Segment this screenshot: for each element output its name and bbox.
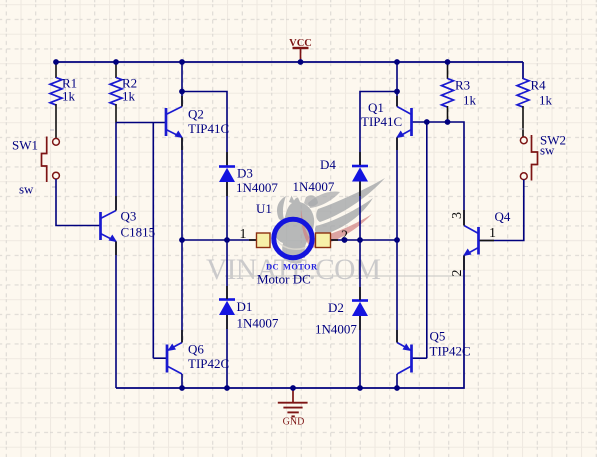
watermark logo: wing 2: [315, 198, 373, 236]
wire node to D3 top: [182, 92, 227, 167]
junction Q1 collector node: [394, 89, 400, 95]
black component pin stubs: [116, 96, 494, 343]
svg-text:1: 1: [240, 227, 247, 242]
svg-text:D4: D4: [320, 157, 336, 172]
svg-text:sw: sw: [19, 182, 34, 197]
junction Q1 feed/bus: [394, 59, 400, 65]
svg-text:GND: GND: [283, 417, 305, 428]
wire R4 bottom lead to SW2: [522, 106, 524, 137]
wire ground bus: [116, 256, 464, 389]
svg-text:Q2: Q2: [188, 107, 204, 122]
diode D2 (1N4007): [352, 301, 368, 317]
transistor Q6 (TIP42C PNP): [167, 343, 182, 375]
pin stub D2 top: [359, 287, 361, 300]
transistor Q3 (C1815 NPN): [101, 211, 118, 243]
junction ground bus / Q6: [179, 385, 185, 391]
svg-text:MOTOR: MOTOR: [283, 262, 318, 272]
svg-text:Q1: Q1: [368, 100, 384, 115]
switch SW2: [520, 135, 537, 181]
svg-text:DC: DC: [266, 262, 279, 272]
pin stub Q2 emitter: [181, 138, 183, 151]
pin stub Q2 collector: [181, 96, 183, 107]
pin stub D2 bottom: [359, 316, 361, 330]
svg-text:Q6: Q6: [188, 342, 204, 357]
wire node to D4 top: [360, 92, 397, 166]
wire D2 top: [359, 240, 361, 300]
transistor Q5 (TIP42C PNP, mirrored): [397, 343, 412, 375]
wire R2 node to Q2 base: [116, 122, 166, 124]
svg-text:TIP41C: TIP41C: [188, 121, 229, 136]
pin stub D4 bottom: [359, 182, 361, 197]
pin stub Q4 base: [480, 240, 495, 242]
resistor R2: [110, 78, 122, 105]
wire Q1 collector feed: [396, 62, 398, 107]
watermark logo: horse neck wisp: [304, 195, 318, 206]
junction motor left / Q2 emitter: [179, 237, 185, 243]
svg-text:3: 3: [450, 212, 465, 219]
svg-text:R3: R3: [455, 78, 470, 93]
wire Q2 emitter / motor left / Q6 emitter column: [181, 138, 183, 343]
wire R2 bottom lead: [115, 104, 117, 123]
pin stub Q1 collector: [396, 96, 398, 107]
wire Q1 emitter / motor right / Q5 emitter column: [396, 138, 398, 343]
watermark logo: horse head and neck: [275, 196, 314, 259]
wire D2 bottom: [359, 316, 361, 389]
motor U1 right terminal: [316, 233, 331, 248]
svg-text:Q3: Q3: [121, 209, 137, 224]
junction Q2 feed/bus: [179, 59, 185, 65]
pin stub Q4 emitter: [463, 256, 465, 271]
junction R3/bus: [445, 59, 451, 65]
junction ground bus / Q5: [394, 385, 400, 391]
wire R2 top lead: [115, 62, 117, 78]
wire Q6 collector to ground bus: [181, 374, 183, 388]
svg-text:1: 1: [489, 226, 496, 241]
wire R3 bottom lead: [447, 106, 449, 122]
motor U1 pin 2 lead: [330, 239, 338, 241]
svg-text:D2: D2: [328, 300, 344, 315]
svg-text:Motor DC: Motor DC: [257, 272, 311, 287]
wire base column to Q6 base: [152, 123, 154, 359]
svg-text:1N4007: 1N4007: [315, 322, 357, 337]
junction ground bus / D2: [357, 385, 363, 391]
svg-text:2: 2: [450, 270, 465, 277]
pin stub D3 bottom: [226, 182, 228, 196]
motor U1 left terminal: [257, 233, 271, 248]
wire motor left: [182, 239, 257, 241]
wire R1 bottom lead to SW1: [55, 104, 57, 138]
switch SW1: [42, 137, 60, 183]
pin stub Q5 emitter: [396, 330, 398, 343]
svg-text:sw: sw: [540, 143, 555, 158]
junction ground bus / GND: [290, 385, 296, 391]
resistor R4: [517, 79, 529, 108]
wire Q3 emitter to ground bus: [115, 242, 117, 389]
diode D4 (1N4007): [352, 166, 368, 182]
wire R4 top lead: [522, 62, 524, 79]
svg-text:Q5: Q5: [430, 329, 446, 344]
junction Q5 base column: [424, 119, 430, 125]
wire Q1 base to Q4 collector: [412, 122, 464, 226]
pin stub D1 bottom: [226, 315, 228, 329]
wire motor right: [330, 239, 397, 241]
diode D3 (1N4007): [219, 167, 235, 183]
transistor Q2 (TIP41C NPN): [166, 107, 183, 139]
pin tick marks SW2: [520, 129, 529, 187]
motor U1 pin 1 lead: [249, 239, 257, 241]
svg-text:SW1: SW1: [12, 138, 38, 153]
svg-text:Q4: Q4: [495, 209, 511, 224]
svg-text:VCC: VCC: [289, 38, 312, 49]
wire SW1 to Q3 base: [56, 179, 100, 226]
svg-text:1N4007: 1N4007: [236, 180, 278, 195]
svg-text:1k: 1k: [122, 89, 136, 104]
svg-text:1N4007: 1N4007: [293, 179, 335, 194]
pin stub D3 top: [226, 152, 228, 165]
junction R2/bus: [113, 59, 119, 65]
watermark logo: red wing: [301, 209, 372, 248]
wire Q6 base pin: [153, 357, 166, 359]
resistor R1: [50, 78, 62, 105]
junction ground bus / D1: [224, 385, 230, 391]
junction R3 bottom: [445, 119, 451, 125]
pin tick marks SW1: [50, 130, 56, 187]
svg-text:1k: 1k: [539, 93, 553, 108]
pin stub Q6 emitter: [181, 330, 183, 343]
watermark underline: [225, 275, 471, 277]
wire R2 node down to Q3 collector: [115, 123, 117, 211]
transistor Q4 (NPN, mirrored): [463, 226, 479, 257]
junction motor right / Q1 emitter: [394, 237, 400, 243]
watermark logo: horse chest below: [282, 252, 303, 263]
watermark logo: wing 1: [316, 178, 385, 222]
junction Q2 collector node: [179, 89, 185, 95]
wire D4 bottom: [359, 182, 361, 241]
watermark logo: wing 3 small: [308, 191, 340, 208]
junction R1/bus: [53, 59, 59, 65]
diode D1 (1N4007): [219, 300, 235, 316]
junction motor right wire join: [342, 237, 348, 243]
motor U1 body circle: [274, 219, 312, 257]
ground GND: [278, 388, 308, 428]
svg-text:1N4007: 1N4007: [237, 316, 279, 331]
junction VCC/bus: [298, 59, 304, 65]
pin stub Q3 collector: [115, 196, 117, 211]
watermark logo: horse mane lock: [277, 196, 286, 220]
power port VCC: [289, 38, 312, 62]
wire R3 top lead: [447, 62, 449, 79]
junction motor left / D3 D1: [224, 237, 230, 243]
svg-text:D1: D1: [237, 299, 253, 314]
wire D1 top: [226, 240, 228, 299]
svg-text:U1: U1: [256, 201, 272, 216]
svg-text:TIP41C: TIP41C: [361, 114, 402, 129]
pin stub Q3 emitter: [115, 242, 117, 256]
pin stub Q4 collector: [463, 210, 465, 226]
pin stub Q1 emitter: [396, 138, 398, 151]
junction motor right / D4 D2: [357, 237, 363, 243]
wire SW2 to Q4 base: [480, 180, 524, 241]
resistor R3: [442, 79, 454, 108]
wire R1 top lead: [55, 62, 57, 78]
svg-text:1k: 1k: [463, 93, 477, 108]
pin stub D1 top: [226, 286, 228, 299]
wire D3 bottom: [226, 182, 228, 240]
svg-text:C1815: C1815: [121, 225, 156, 240]
svg-text:1k: 1k: [62, 89, 76, 104]
wire base column to Q5 base: [426, 122, 428, 358]
wire D1 bottom: [226, 315, 228, 388]
transistor Q1 (TIP41C NPN, mirrored): [396, 107, 412, 139]
wire Q2 collector feed: [181, 62, 183, 107]
wire Q5 base pin: [412, 357, 427, 359]
wire Q5 collector to ground bus: [396, 374, 398, 388]
svg-text:R4: R4: [531, 78, 547, 93]
svg-text:TIP42C: TIP42C: [188, 356, 229, 371]
svg-text:D3: D3: [237, 166, 253, 181]
wire top VCC bus: [56, 61, 523, 63]
watermark logo: jaw highlight: [277, 241, 311, 249]
pin stub D4 top: [359, 152, 361, 165]
